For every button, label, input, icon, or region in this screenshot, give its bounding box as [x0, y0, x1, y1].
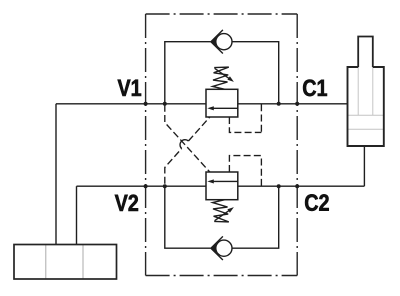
wire V2 port line: [77, 185, 207, 187]
port label C2: [305, 194, 329, 211]
junction C1 / bypass branch: [277, 102, 281, 106]
wire top bypass branch (C1 side): [232, 42, 279, 104]
junction V2 at boundary: [144, 184, 148, 188]
check valve CV1: [211, 30, 232, 54]
pilot line V2 to CB1 upper segment: [188, 117, 209, 141]
wire V1 riser to manifold: [55, 104, 57, 245]
CB1 flow arrow: [207, 106, 238, 110]
junction V1 at boundary: [144, 102, 148, 106]
check valve CV2: [211, 236, 232, 260]
counterbalance valve CB1 body: [206, 89, 238, 117]
counterbalance valve CB2 body: [206, 172, 238, 200]
cylinder body: [348, 67, 384, 146]
junction C1 at boundary: [295, 102, 299, 106]
manifold block: [14, 245, 117, 280]
wire bottom bypass branch (C2 side): [232, 186, 279, 248]
valve assembly boundary (dash-dot enclosure): [146, 14, 298, 276]
CB2 adjustable spring: [213, 200, 234, 222]
wire C2 line (valve to cylinder): [238, 185, 365, 187]
junction V2 / bypass branch: [163, 184, 167, 188]
CB2 flow arrow: [207, 179, 238, 183]
pilot line CB1 drain leg at C1: [260, 104, 262, 132]
wire top bypass branch (V1 side up and over): [165, 42, 211, 104]
wire cylinder bottom feed: [363, 146, 365, 186]
pilot line CB2 drain leg at C2: [260, 156, 262, 186]
wire bottom bypass branch (V2 side down and over): [165, 186, 211, 248]
port label C1: [303, 80, 327, 97]
crossover jump arc: [180, 140, 188, 149]
pilot line CB1 to C1 (drain sensing): [229, 117, 261, 132]
manifold block internal cavity lines: [46, 245, 83, 280]
junction C2 / bypass branch: [277, 184, 281, 188]
port label V2: [115, 195, 138, 211]
wire V2 riser to manifold: [76, 186, 78, 244]
wire C1 line (valve to cylinder): [238, 103, 348, 105]
wire V1 port line: [56, 103, 206, 105]
junction V1 / bypass branch: [163, 102, 167, 106]
pilot line V1 to CB2 (descending): [165, 104, 210, 172]
cylinder rod: [358, 37, 373, 68]
port label V1: [118, 80, 141, 96]
cylinder rod internal lines: [348, 67, 384, 129]
junction C2 at boundary: [295, 184, 299, 188]
pilot line CB2 to C2 (drain sensing): [229, 156, 261, 172]
CB1 adjustable spring: [213, 67, 234, 89]
pilot line V2 to CB1 (ascending, with crossover jump): [165, 149, 182, 187]
